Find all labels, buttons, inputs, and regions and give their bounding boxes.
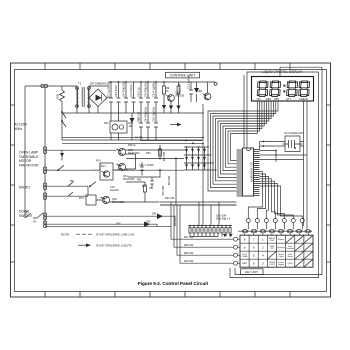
- svg-text:D06: D06: [104, 122, 109, 125]
- svg-text:D63: D63: [146, 221, 151, 224]
- diode D8: [170, 101, 172, 113]
- svg-text:Beverage: Beverage: [277, 246, 284, 249]
- zener D11: [194, 82, 199, 102]
- svg-text:AC120V: AC120V: [14, 123, 28, 127]
- ground rail bottom left: [45, 225, 171, 227]
- resistor R2: [177, 82, 181, 104]
- IC1 right pins: [254, 150, 260, 196]
- svg-text:RY2: RY2: [79, 197, 84, 200]
- svg-text:R40 10k: R40 10k: [161, 186, 164, 196]
- note: [61, 232, 135, 247]
- svg-text:R42 15k: R42 15k: [165, 197, 175, 200]
- svg-text:CLOCK: CLOCK: [269, 264, 276, 266]
- LCD colon: [283, 85, 285, 87]
- wire micro row 2: [47, 195, 88, 197]
- svg-text:60Hz: 60Hz: [14, 127, 22, 131]
- wire row 205: [160, 204, 236, 206]
- IC right wires to resonator: [260, 142, 304, 151]
- regulator IC2: [104, 113, 134, 140]
- cap C10 lower: [152, 106, 158, 140]
- key transistor row: [246, 219, 304, 230]
- wire door row 1: [47, 216, 175, 226]
- svg-text:C10 10µ/16v: C10 10µ/16v: [152, 106, 156, 122]
- display right pins down: [304, 101, 308, 229]
- svg-text:C4 470µ/35v: C4 470µ/35v: [122, 81, 126, 97]
- IC1 body: [243, 148, 254, 196]
- resistor R41: [159, 145, 165, 162]
- svg-text:T1: T1: [78, 82, 82, 86]
- connector pair door 1: [43, 213, 46, 216]
- svg-text:Reheat: Reheat: [287, 255, 293, 258]
- node dots mid: [202, 137, 204, 139]
- wire y177: [128, 170, 160, 177]
- connector CN1: [41, 84, 44, 87]
- diode array D01-D04: [184, 146, 217, 170]
- wire oven lamp drop: [99, 163, 101, 170]
- svg-text:START: START: [242, 262, 247, 265]
- key row transistors: [234, 237, 241, 265]
- cap C41: [139, 162, 155, 176]
- transistor Q61: [117, 154, 136, 181]
- svg-text:Popcorn: Popcorn: [278, 238, 284, 241]
- svg-text:CLEAR: CLEAR: [242, 255, 248, 258]
- svg-text:R41 15k: R41 15k: [162, 152, 165, 162]
- svg-text:D04: D04: [152, 213, 157, 216]
- svg-text:Figure 5-2. Control Panel Circ: Figure 5-2. Control Panel Circuit: [138, 281, 209, 286]
- svg-text:DEF: DEF: [266, 97, 272, 101]
- svg-text:(F): (F): [25, 211, 28, 215]
- svg-text:C8 0.1µ: C8 0.1µ: [137, 87, 141, 97]
- bus display to IC: [208, 101, 278, 191]
- cap C14 lower: [137, 111, 143, 140]
- svg-text:CONTROL UNIT: CONTROL UNIT: [170, 74, 195, 78]
- border tick marks top: [45, 63, 290, 70]
- diode D9: [178, 104, 180, 113]
- svg-text:QUICK: QUICK: [288, 263, 294, 265]
- keypad digits: [244, 238, 264, 266]
- wire Q60 to array: [126, 145, 187, 150]
- cap C1: [107, 82, 113, 113]
- wire sec: [61, 106, 63, 141]
- border frame outer: [11, 63, 331, 297]
- resistor network top wire: [188, 225, 232, 227]
- key contact row: [238, 230, 312, 236]
- wire feeds IC top: [244, 67, 322, 148]
- resistor R4: [130, 113, 144, 140]
- wire left vertical 2: [44, 88, 46, 226]
- LCD digit 4: [299, 81, 310, 96]
- wire AC top rail: [25, 85, 74, 87]
- cap C13: [187, 75, 193, 102]
- svg-text:C13 1µ/50v: C13 1µ/50v: [187, 75, 191, 89]
- LCD digit 3: [287, 81, 298, 96]
- resonator CF1: [283, 132, 304, 152]
- svg-text:DTA143ES: DTA143ES: [112, 201, 125, 204]
- svg-text:CHECK: CHECK: [299, 97, 308, 101]
- border tick marks bottom: [45, 292, 290, 298]
- cap C42: [150, 177, 153, 188]
- connector pair micro 2: [43, 193, 46, 196]
- cap C4: [137, 82, 143, 113]
- keypad blank diagonals: [267, 235, 313, 267]
- svg-text:R02: R02: [137, 179, 142, 182]
- wire micro row 1: [47, 185, 88, 187]
- svg-text:C9 470µ/16v: C9 470µ/16v: [144, 81, 148, 97]
- svg-text:D60: D60: [146, 152, 151, 155]
- svg-text:CF1 CERALOCK: CF1 CERALOCK: [284, 132, 304, 135]
- svg-text:C41 1.7µ/50v: C41 1.7µ/50v: [139, 164, 155, 167]
- svg-text:C1 1µ/50v: C1 1µ/50v: [107, 84, 111, 97]
- border tick marks left: [11, 105, 15, 262]
- top dc rail: [108, 81, 216, 83]
- bus right wrap: [230, 67, 322, 277]
- door switch contacts: [25, 213, 43, 218]
- bridge rectifier DB1: [89, 86, 111, 113]
- resistor R02: [126, 179, 154, 203]
- control unit label box: [166, 72, 200, 78]
- cap C6: [152, 82, 158, 113]
- svg-text:R43 15k: R43 15k: [167, 176, 170, 186]
- svg-text:C5 4.7µ/50v: C5 4.7µ/50v: [152, 82, 156, 97]
- cap C2: [114, 82, 120, 113]
- svg-text:(F): (F): [33, 220, 36, 224]
- transistor Q1 right: [198, 82, 211, 100]
- svg-text:Potato: Potato: [279, 255, 284, 258]
- connector pair oven lamp: [43, 167, 46, 170]
- svg-text:Si²@ R@ x 4: Si²@ R@ x 4: [216, 217, 231, 220]
- resistor network R01-R06: [189, 226, 231, 237]
- svg-text:RD5.6E: RD5.6E: [176, 95, 185, 98]
- wire RY1 right to array: [113, 169, 184, 171]
- svg-text:C15 470P: C15 470P: [114, 85, 118, 97]
- keypad text keys: [242, 238, 294, 266]
- LCD digit 1: [257, 81, 268, 96]
- bus IC right to keys: [248, 172, 302, 219]
- switch mid: [47, 165, 64, 170]
- svg-text:D40: D40: [116, 223, 121, 226]
- varistor VRD: [60, 86, 65, 106]
- connector pair micro 1: [43, 183, 46, 186]
- relay RY2: [79, 195, 96, 205]
- svg-text:KRA101M: KRA101M: [123, 178, 134, 181]
- svg-text:R6B 10k: R6B 10k: [137, 111, 141, 122]
- svg-text:IF NOT SPECIFIED, 1N52/7A: IF NOT SPECIFIED, 1N52/7A: [96, 243, 132, 247]
- svg-text:KRA101M: KRA101M: [128, 152, 139, 155]
- junction dots rails: [110, 81, 112, 83]
- svg-text:LBS: LBS: [274, 97, 279, 101]
- svg-text:OST: OST: [270, 248, 273, 250]
- border tick marks right: [327, 105, 331, 262]
- relay RY1: [90, 163, 128, 180]
- cap C7 lower: [144, 106, 150, 140]
- svg-text:ON: ON: [257, 97, 261, 101]
- svg-text:IC1 IZA849DR: IC1 IZA849DR: [249, 162, 253, 182]
- arrow sym: [170, 124, 180, 126]
- wire sec rail: [62, 112, 204, 114]
- svg-text:10µ/16v: 10µ/16v: [110, 189, 120, 192]
- transistor Q62: [96, 196, 160, 204]
- svg-text:VRD: VRD: [56, 94, 60, 100]
- connector pair lamp upper: [43, 147, 46, 150]
- wire left vertical 1: [24, 86, 26, 218]
- LCD digit 2: [270, 81, 281, 96]
- svg-text:Vegetab: Vegetab: [278, 263, 284, 266]
- diode D7: [163, 100, 165, 113]
- svg-text:RY-1: RY-1: [96, 160, 102, 163]
- switch SW1: [62, 112, 66, 127]
- resistor R9: [163, 82, 170, 100]
- wire oven lamp row: [47, 169, 100, 171]
- svg-text:KEY UNIT: KEY UNIT: [245, 270, 258, 274]
- transformer T1: [74, 82, 111, 114]
- cap C5: [144, 81, 150, 113]
- transistor Q1: [166, 92, 185, 102]
- svg-text:R08 15k: R08 15k: [184, 244, 194, 247]
- keypad grid: [240, 235, 313, 267]
- wire mid rail: [62, 139, 204, 141]
- svg-text:R45 1k: R45 1k: [128, 144, 136, 147]
- border frame inner: [15, 70, 327, 292]
- svg-text:FAN MOTOR: FAN MOTOR: [19, 163, 39, 167]
- svg-text:IF NOT SPECIFIED, 1/4W 1.5%: IF NOT SPECIFIED, 1/4W 1.5%: [96, 232, 135, 236]
- svg-text:C3 0.022µ: C3 0.022µ: [129, 84, 133, 97]
- svg-text:RY1: RY1: [101, 165, 106, 168]
- network bottom rail: [190, 236, 218, 238]
- svg-text:NOTE: NOTE: [61, 232, 69, 236]
- svg-text:Vegetable: Vegetable: [286, 247, 294, 250]
- network diodes: [223, 234, 233, 237]
- wire zd drop: [202, 104, 204, 138]
- diode D door1: [157, 214, 163, 220]
- row feed wires: [171, 205, 233, 263]
- wire mid 158: [126, 159, 184, 206]
- cap C3: [122, 81, 128, 113]
- connector pair door 2: [43, 221, 46, 224]
- svg-text:R09 15k: R09 15k: [184, 252, 194, 255]
- key unit label: [241, 269, 264, 275]
- IC1 left pins: [237, 150, 243, 196]
- transistor Q60: [47, 148, 140, 155]
- svg-text:QTY: QTY: [286, 97, 292, 101]
- diode left micro: [61, 151, 63, 161]
- mid rails to bus: [62, 138, 203, 144]
- LCD box: [252, 77, 314, 102]
- diode D door2: [144, 222, 150, 228]
- svg-text:C4 470µ/16v: C4 470µ/16v: [144, 106, 148, 122]
- wires mid to network: [160, 143, 237, 225]
- wire micro to Q62: [87, 186, 89, 195]
- svg-text:R10 15k: R10 15k: [184, 260, 194, 263]
- cap C6b: [129, 82, 135, 113]
- svg-text:ZD1: ZD1: [198, 90, 203, 93]
- relay contact RY2b: [90, 182, 96, 187]
